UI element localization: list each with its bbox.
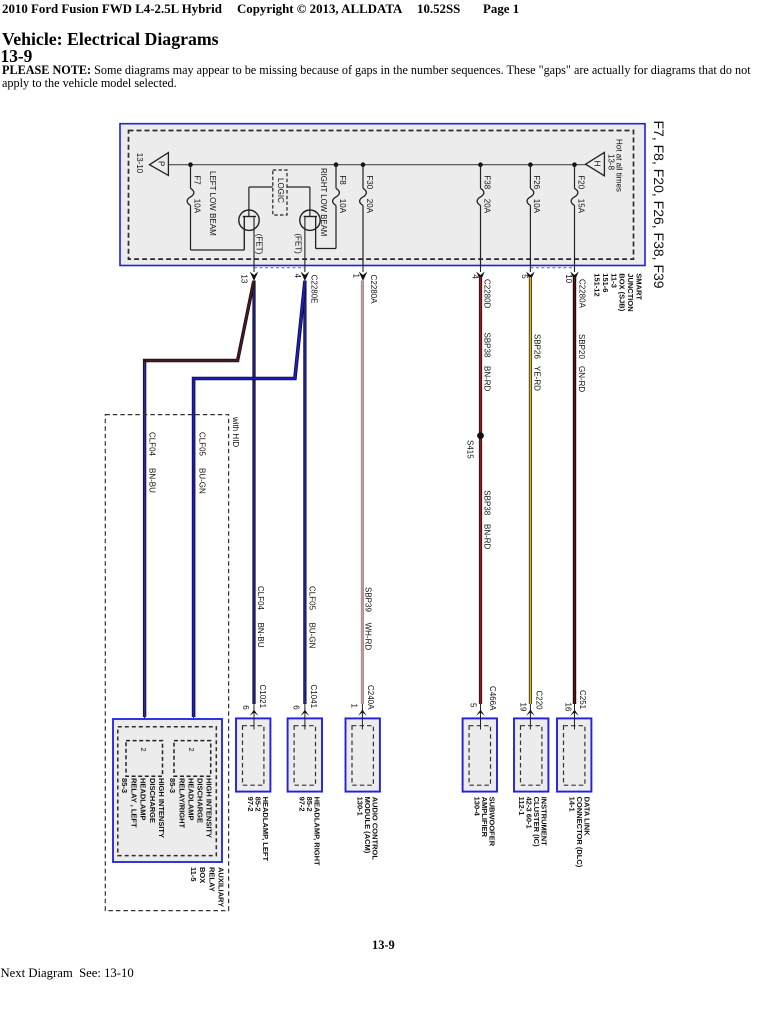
svg-text:10A: 10A bbox=[192, 199, 201, 214]
svg-text:H: H bbox=[593, 161, 602, 167]
svg-text:F7: F7 bbox=[192, 175, 201, 185]
svg-text:CLF04: CLF04 bbox=[256, 586, 265, 611]
svg-text:4: 4 bbox=[471, 274, 480, 279]
svg-text:1: 1 bbox=[350, 704, 359, 709]
svg-text:BU-GN: BU-GN bbox=[198, 468, 207, 494]
svg-text:HEADLAMP: HEADLAMP bbox=[186, 778, 195, 821]
svg-text:RELAY , LEFT: RELAY , LEFT bbox=[129, 778, 138, 828]
svg-text:130-1: 130-1 bbox=[356, 797, 365, 816]
svg-text:6: 6 bbox=[292, 705, 301, 710]
svg-text:SBP20: SBP20 bbox=[577, 334, 586, 359]
svg-text:C240A: C240A bbox=[366, 685, 375, 710]
svg-text:112-1: 112-1 bbox=[517, 797, 526, 816]
svg-text:10A: 10A bbox=[338, 199, 347, 214]
svg-text:C1021: C1021 bbox=[258, 685, 267, 709]
svg-text:CLF04: CLF04 bbox=[148, 432, 157, 457]
svg-text:2: 2 bbox=[187, 748, 196, 752]
svg-text:F26: F26 bbox=[532, 175, 541, 189]
svg-text:85-3: 85-3 bbox=[120, 778, 129, 793]
svg-text:LOGIC: LOGIC bbox=[276, 178, 285, 203]
svg-text:C220: C220 bbox=[534, 691, 543, 711]
svg-text:HIGH INTENSITY: HIGH INTENSITY bbox=[205, 778, 214, 838]
svg-text:20A: 20A bbox=[482, 199, 491, 214]
svg-text:RELAY/RIGHT: RELAY/RIGHT bbox=[177, 778, 186, 829]
svg-text:CLF05: CLF05 bbox=[308, 586, 317, 611]
svg-text:SBP26: SBP26 bbox=[532, 334, 541, 359]
svg-text:97-2: 97-2 bbox=[246, 797, 255, 812]
svg-text:C2280A: C2280A bbox=[369, 275, 378, 305]
svg-text:HEADLAMP: HEADLAMP bbox=[139, 778, 148, 821]
svg-text:BN-RD: BN-RD bbox=[483, 524, 492, 550]
svg-text:WH-RD: WH-RD bbox=[364, 623, 373, 651]
svg-text:C2280E: C2280E bbox=[310, 275, 319, 304]
svg-text:C466A: C466A bbox=[488, 686, 497, 711]
svg-text:151-12: 151-12 bbox=[593, 273, 602, 296]
svg-text:GN-RD: GN-RD bbox=[577, 366, 586, 392]
svg-text:C1041: C1041 bbox=[309, 685, 318, 709]
svg-text:RIGHT LOW BEAM: RIGHT LOW BEAM bbox=[319, 168, 328, 236]
svg-text:14-1: 14-1 bbox=[568, 797, 577, 812]
svg-text:5: 5 bbox=[520, 274, 529, 279]
svg-text:130-4: 130-4 bbox=[473, 797, 482, 817]
svg-text:SBP38: SBP38 bbox=[483, 333, 492, 358]
svg-text:4: 4 bbox=[293, 274, 302, 279]
svg-text:BN-BU: BN-BU bbox=[256, 623, 265, 648]
svg-text:with HID: with HID bbox=[231, 416, 240, 447]
svg-text:5: 5 bbox=[469, 703, 478, 708]
svg-text:C251: C251 bbox=[578, 690, 587, 710]
svg-text:97-2: 97-2 bbox=[298, 797, 307, 812]
svg-text:13: 13 bbox=[239, 274, 248, 283]
svg-text:10: 10 bbox=[564, 274, 573, 283]
svg-text:16: 16 bbox=[563, 703, 572, 712]
svg-text:19: 19 bbox=[519, 703, 528, 712]
svg-text:YE-RD: YE-RD bbox=[532, 366, 541, 391]
svg-text:C2280D: C2280D bbox=[482, 279, 491, 309]
svg-text:(FET): (FET) bbox=[294, 233, 303, 254]
svg-text:6: 6 bbox=[241, 705, 250, 710]
svg-text:DISCHARGE: DISCHARGE bbox=[196, 778, 205, 823]
svg-text:F20: F20 bbox=[576, 175, 585, 189]
svg-text:BN-BU: BN-BU bbox=[148, 468, 157, 493]
svg-text:C2280A: C2280A bbox=[578, 279, 587, 309]
svg-text:AUXILIARY: AUXILIARY bbox=[217, 867, 226, 907]
svg-text:20A: 20A bbox=[365, 199, 374, 214]
svg-text:RELAY: RELAY bbox=[207, 867, 216, 892]
svg-text:15A: 15A bbox=[576, 199, 585, 214]
svg-text:F8: F8 bbox=[338, 175, 347, 185]
svg-text:CLF05: CLF05 bbox=[198, 432, 207, 457]
svg-text:BN-RD: BN-RD bbox=[483, 366, 492, 392]
svg-text:DISCHARGE: DISCHARGE bbox=[148, 778, 157, 823]
svg-text:SBP38: SBP38 bbox=[483, 490, 492, 515]
svg-text:F38: F38 bbox=[482, 175, 491, 189]
svg-text:BU-GN: BU-GN bbox=[308, 623, 317, 649]
svg-text:13-8: 13-8 bbox=[607, 154, 616, 171]
svg-text:85-3: 85-3 bbox=[168, 778, 177, 793]
svg-text:F30: F30 bbox=[365, 175, 374, 189]
svg-text:1: 1 bbox=[352, 274, 361, 279]
svg-text:P: P bbox=[156, 161, 165, 166]
svg-text:11-5: 11-5 bbox=[189, 867, 198, 882]
svg-text:BOX: BOX bbox=[198, 867, 207, 883]
svg-text:LEFT LOW BEAM: LEFT LOW BEAM bbox=[208, 171, 217, 236]
svg-text:2: 2 bbox=[139, 748, 148, 752]
svg-text:13-10: 13-10 bbox=[135, 153, 144, 174]
svg-text:S415: S415 bbox=[465, 440, 474, 459]
svg-text:F7, F8, F20, F26, F38, F39: F7, F8, F20, F26, F38, F39 bbox=[651, 121, 667, 289]
svg-text:(FET): (FET) bbox=[255, 234, 264, 255]
svg-text:Hot at all times: Hot at all times bbox=[615, 139, 624, 192]
svg-text:HIGH INTENSITY: HIGH INTENSITY bbox=[157, 778, 166, 838]
svg-text:10A: 10A bbox=[532, 199, 541, 214]
svg-text:SBP39: SBP39 bbox=[364, 587, 373, 612]
